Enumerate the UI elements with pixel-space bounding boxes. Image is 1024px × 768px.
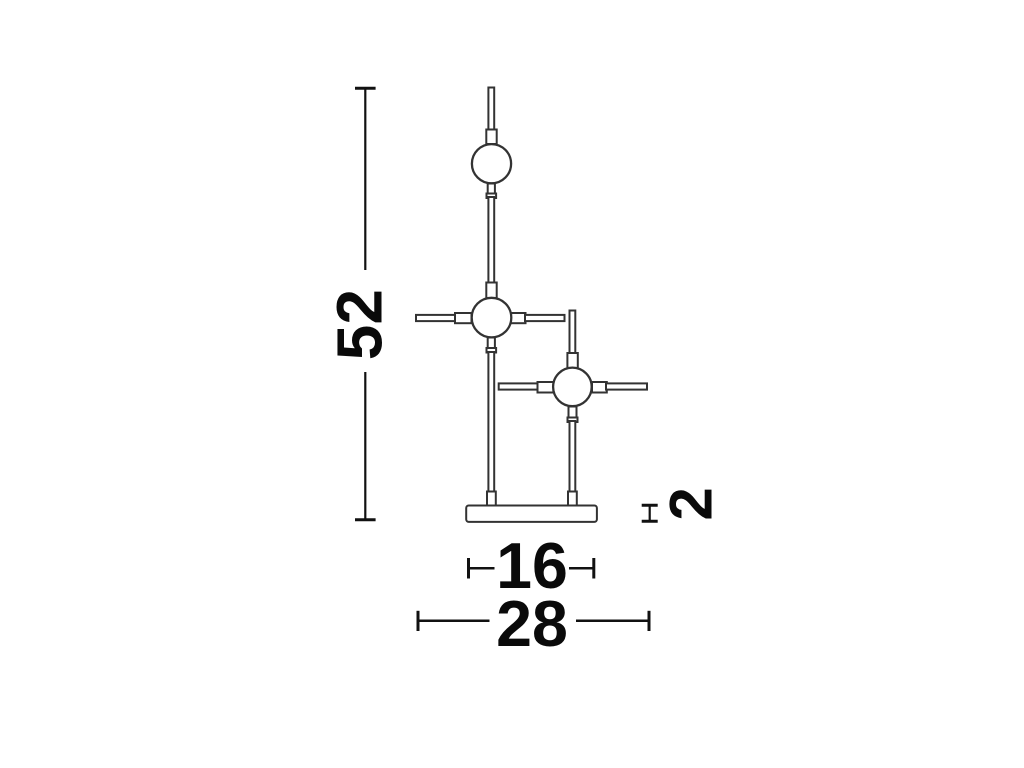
svg-text:28: 28 xyxy=(496,588,568,660)
svg-text:52: 52 xyxy=(324,289,396,360)
svg-text:2: 2 xyxy=(657,487,724,520)
